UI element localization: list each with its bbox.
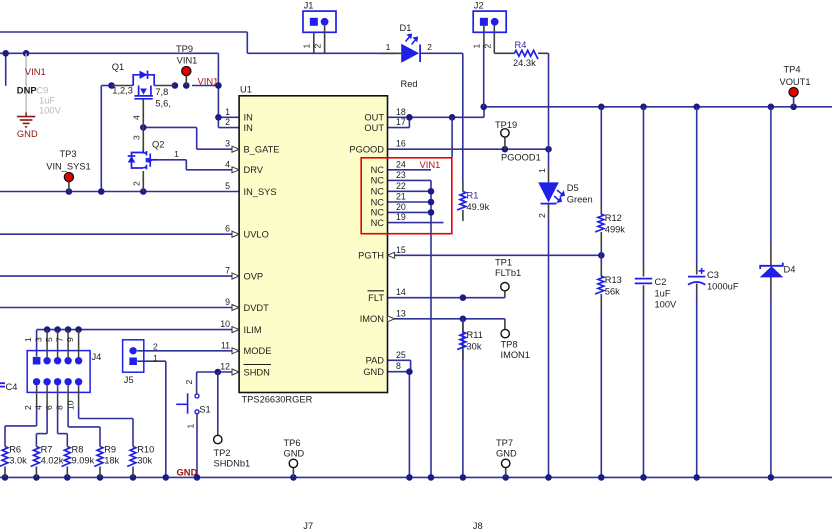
svg-text:2: 2: [312, 44, 322, 49]
node rail dot: [130, 474, 137, 481]
diode D1: [381, 52, 401, 54]
svg-text:NC: NC: [371, 208, 385, 218]
node rail dot: [640, 474, 647, 481]
node rail dot: [97, 474, 104, 481]
wire GND rail: [0, 476, 832, 478]
svg-text:2: 2: [184, 380, 194, 385]
node bus C3 dot: [693, 104, 700, 111]
svg-text:GND: GND: [284, 449, 305, 459]
wire DRV feeder: [158, 159, 186, 161]
pin arrow: [232, 327, 239, 333]
svg-text:Red: Red: [401, 79, 418, 89]
svg-text:D5: D5: [567, 183, 579, 193]
svg-text:MODE: MODE: [244, 346, 272, 356]
pin arrow: [232, 348, 239, 354]
wire TP4 lead: [793, 97, 795, 107]
testpoint TP7: [505, 468, 507, 478]
svg-text:SHDN: SHDN: [244, 367, 270, 377]
svg-text:Q2: Q2: [152, 140, 164, 150]
svg-text:30k: 30k: [467, 342, 482, 352]
node bus D4 dot: [768, 104, 775, 111]
node OUT dotA: [449, 114, 456, 121]
ground GND1: [25, 113, 27, 117]
svg-text:30k: 30k: [137, 456, 152, 466]
wire IN pin1: [218, 116, 239, 118]
wire D5 column: [548, 149, 550, 168]
node IN_SYS Q1 dot: [98, 188, 105, 195]
svg-text:3: 3: [132, 135, 142, 140]
wire top row to J1/D1: [0, 31, 247, 33]
svg-text:Q1: Q1: [112, 62, 124, 72]
svg-text:R9: R9: [104, 445, 116, 455]
svg-text:DVDT: DVDT: [244, 303, 270, 313]
svg-text:3.0k: 3.0k: [9, 456, 27, 466]
node VIN1 dot2: [23, 50, 30, 57]
wire B_GATE feeder: [143, 126, 196, 128]
capacitor C9 DNP: [25, 53, 27, 112]
svg-text:GND: GND: [17, 128, 38, 139]
wire NC20: [388, 211, 432, 213]
svg-text:IN_SYS: IN_SYS: [244, 187, 277, 197]
svg-text:16: 16: [396, 139, 406, 149]
svg-text:21: 21: [396, 192, 406, 202]
wire J1 to D1: [247, 52, 397, 54]
wire J4p10-R10: [78, 407, 80, 419]
svg-text:DNP: DNP: [17, 85, 37, 96]
svg-text:4: 4: [132, 115, 142, 120]
svg-text:J5: J5: [124, 375, 134, 385]
svg-text:NC: NC: [371, 165, 385, 175]
svg-text:22: 22: [396, 181, 406, 191]
svg-text:NC: NC: [371, 218, 385, 228]
svg-text:R4: R4: [515, 40, 527, 50]
svg-text:TP9: TP9: [176, 44, 193, 54]
svg-text:4: 4: [34, 405, 44, 410]
svg-text:19: 19: [396, 212, 406, 222]
wire J2 pin1 drop: [483, 45, 485, 107]
svg-text:VIN1: VIN1: [177, 56, 198, 66]
overline SHDN: [244, 364, 272, 366]
svg-text:1: 1: [386, 42, 391, 52]
svg-text:OUT: OUT: [364, 113, 384, 123]
svg-text:VIN1: VIN1: [25, 66, 46, 77]
wire PGTH row: [388, 254, 602, 256]
svg-text:100V: 100V: [39, 105, 62, 116]
svg-text:9: 9: [225, 297, 230, 307]
node rail dot: [33, 474, 40, 481]
node rail dot: [290, 474, 297, 481]
svg-text:PGOOD1: PGOOD1: [501, 153, 541, 163]
pin arrow: [232, 167, 239, 173]
transistor Q1: [112, 85, 134, 87]
svg-text:2: 2: [23, 405, 33, 410]
svg-text:12: 12: [220, 362, 230, 372]
svg-text:20: 20: [396, 202, 406, 212]
svg-text:14: 14: [396, 287, 406, 297]
wire D1 to corner: [424, 52, 463, 54]
svg-text:TP8: TP8: [501, 340, 518, 350]
svg-text:2: 2: [427, 42, 432, 52]
resistor R6: [0, 447, 8, 467]
node IN dot: [215, 114, 222, 121]
svg-text:24.3k: 24.3k: [513, 58, 536, 68]
svg-text:11: 11: [221, 340, 230, 350]
pin arrow IMON: [388, 316, 395, 322]
svg-text:7: 7: [225, 266, 230, 276]
resistor R1: [457, 192, 466, 211]
node PGOOD TP19 dot: [502, 146, 509, 153]
svg-text:J1: J1: [304, 1, 314, 11]
diode D5: [538, 182, 559, 202]
resistor R12: [595, 214, 604, 232]
node VIN1 dot1: [2, 50, 9, 57]
node NC22 dot: [428, 188, 435, 195]
resistor R7: [31, 447, 40, 467]
wire IN_SYS row: [0, 191, 239, 193]
node bus TP4 dot: [790, 104, 797, 111]
pin arrow: [232, 273, 239, 279]
svg-text:1: 1: [174, 149, 179, 159]
wire GND8: [388, 371, 410, 373]
svg-text:R13: R13: [605, 275, 622, 285]
svg-text:2: 2: [482, 44, 492, 49]
diode D4: [760, 266, 784, 277]
node ILIM dots: [44, 326, 51, 333]
wire dotA drop: [451, 117, 453, 157]
svg-text:IMON: IMON: [360, 314, 384, 324]
svg-text:100V: 100V: [655, 300, 678, 310]
wire IN pin2: [218, 127, 239, 129]
svg-text:GND: GND: [363, 367, 384, 377]
svg-text:5,6,: 5,6,: [155, 99, 171, 109]
node rail dot: [693, 474, 700, 481]
node bus J2 dot: [480, 104, 487, 111]
wire R13 column: [600, 255, 602, 262]
capacitor C4: [0, 382, 5, 384]
node VIN1 join dot: [215, 82, 222, 89]
svg-text:25: 25: [396, 350, 406, 360]
node GND8 dot: [406, 368, 413, 375]
connector J1: [303, 11, 336, 32]
svg-text:J8: J8: [473, 521, 483, 529]
node OUT dot: [406, 114, 413, 121]
svg-text:1: 1: [186, 424, 196, 429]
capacitor C2: [635, 278, 652, 280]
svg-text:2: 2: [225, 117, 230, 127]
svg-text:R12: R12: [605, 213, 622, 223]
wire UVLO row: [0, 233, 239, 235]
svg-text:FLTb1: FLTb1: [495, 268, 521, 278]
node bus R12 dot: [598, 104, 605, 111]
testpoint TP9: [185, 76, 187, 86]
svg-text:R10: R10: [137, 445, 154, 455]
svg-text:10: 10: [65, 400, 75, 410]
connector J5: [123, 340, 144, 372]
svg-text:5: 5: [44, 337, 54, 342]
svg-text:TP4: TP4: [783, 65, 800, 75]
svg-text:5: 5: [225, 181, 230, 191]
wire MODE row: [137, 350, 239, 352]
svg-text:18: 18: [396, 107, 406, 117]
node PGTH dot: [598, 252, 605, 259]
svg-text:Green: Green: [567, 195, 593, 205]
wire NC19: [388, 222, 444, 224]
svg-text:1uF: 1uF: [655, 289, 671, 299]
svg-text:J4: J4: [92, 352, 102, 362]
svg-text:ILIM: ILIM: [244, 325, 262, 335]
overline FLT: [368, 290, 385, 292]
resistor R10: [127, 447, 136, 467]
node rail dot: [768, 474, 775, 481]
svg-text:IN: IN: [244, 123, 253, 133]
svg-text:7: 7: [55, 337, 65, 342]
wire PAD: [388, 359, 411, 361]
testpoint TP3: [68, 182, 70, 192]
svg-text:24: 24: [396, 159, 406, 169]
wire J4p4-R7: [46, 407, 48, 434]
svg-text:D1: D1: [400, 23, 412, 33]
svg-text:C3: C3: [707, 270, 719, 280]
wire J2 pin2 drop: [493, 26, 495, 54]
svg-text:10: 10: [220, 319, 230, 329]
svg-text:PGTH: PGTH: [358, 251, 384, 261]
svg-text:TP6: TP6: [284, 438, 301, 448]
svg-text:9: 9: [65, 337, 75, 342]
svg-text:7,8: 7,8: [155, 87, 168, 97]
node bus C2 dot: [640, 104, 647, 111]
wire NC24: [388, 169, 432, 171]
svg-text:2: 2: [132, 181, 142, 186]
svg-text:FLT: FLT: [368, 293, 384, 303]
svg-text:PGOOD: PGOOD: [349, 145, 384, 155]
node FLT R1 dot: [460, 294, 467, 301]
svg-text:NC: NC: [371, 176, 385, 186]
testpoint TP1: [501, 283, 509, 291]
wire J4p2-R6: [36, 407, 38, 426]
svg-text:VOUT1: VOUT1: [780, 77, 811, 87]
svg-text:4: 4: [225, 159, 230, 169]
svg-text:UVLO: UVLO: [244, 230, 269, 240]
svg-text:J7: J7: [303, 521, 313, 529]
svg-text:23: 23: [396, 170, 406, 180]
resistor R8: [62, 447, 71, 467]
svg-text:GND: GND: [496, 449, 517, 459]
svg-text:6: 6: [44, 405, 54, 410]
node rail dot: [406, 474, 413, 481]
node rail dot: [460, 474, 467, 481]
resistor R13: [595, 276, 604, 294]
wire R4 right: [544, 52, 549, 54]
wire Q1 out row: [101, 85, 111, 87]
svg-text:R1: R1: [467, 191, 479, 201]
wire S1 bottom: [196, 414, 198, 420]
svg-text:J2: J2: [474, 1, 484, 11]
svg-text:D4: D4: [784, 265, 796, 275]
svg-text:2: 2: [537, 213, 547, 218]
node SHDN dot: [215, 369, 222, 376]
svg-text:6: 6: [225, 224, 230, 234]
svg-text:3: 3: [225, 139, 230, 149]
svg-text:PAD: PAD: [366, 356, 385, 366]
node rail dot: [64, 474, 71, 481]
svg-text:R7: R7: [41, 445, 53, 455]
wire FLT row: [388, 297, 505, 299]
svg-text:TP3: TP3: [59, 149, 76, 159]
switch S1: [195, 394, 199, 398]
svg-text:VIN1: VIN1: [420, 159, 441, 170]
resistor R4: [497, 52, 515, 54]
testpoint TP8: [501, 329, 509, 337]
svg-text:8: 8: [396, 361, 401, 371]
wire OUT18: [388, 116, 485, 118]
svg-text:VIN1: VIN1: [198, 75, 219, 86]
wire TP2 riser: [217, 372, 219, 428]
node Q1 src dot: [108, 82, 115, 89]
pin arrow: [232, 231, 239, 237]
pin arrow PGTH: [388, 252, 395, 258]
pin arrow: [232, 369, 239, 375]
wire PGOOD row: [388, 148, 549, 150]
pin arrow: [232, 305, 239, 311]
svg-text:8: 8: [55, 405, 65, 410]
wire NC22: [388, 190, 432, 192]
svg-text:TPS26630RGER: TPS26630RGER: [242, 395, 313, 405]
node IMON R11 dot: [460, 316, 467, 323]
svg-text:499k: 499k: [605, 225, 626, 235]
svg-text:1: 1: [472, 44, 482, 49]
svg-text:3: 3: [34, 337, 44, 342]
wire R11 drop: [462, 319, 464, 478]
wire OVP row: [0, 275, 239, 277]
svg-text:IMON1: IMON1: [501, 350, 530, 360]
testpoint TP2: [214, 435, 222, 443]
wire J4p8-R9: [67, 407, 69, 427]
wire J5 pin1 row: [137, 360, 166, 362]
node NC20 dot: [428, 209, 435, 216]
svg-text:C2: C2: [655, 277, 667, 287]
connector J4: [27, 351, 90, 393]
node rail dot: [194, 474, 201, 481]
wire VIN1 riser: [217, 53, 219, 127]
node TP9 dot: [183, 82, 190, 89]
node rail dot: [428, 474, 435, 481]
svg-text:DRV: DRV: [244, 165, 264, 175]
wire C3 column: [696, 107, 698, 265]
wire C2 column: [643, 107, 645, 266]
svg-text:2: 2: [153, 342, 158, 352]
wire NC21: [388, 201, 432, 203]
pin arrow: [232, 146, 239, 152]
wire ILIM row: [37, 329, 240, 331]
svg-text:15: 15: [396, 245, 406, 255]
testpoint TP19: [504, 137, 506, 149]
svg-text:R8: R8: [72, 445, 84, 455]
svg-text:1: 1: [537, 168, 547, 173]
wire SHDN row: [197, 371, 240, 373]
annotation red box: [361, 158, 452, 234]
svg-text:TP1: TP1: [495, 258, 512, 268]
svg-text:56k: 56k: [605, 287, 620, 297]
wire VIN row y53: [0, 52, 218, 54]
svg-text:49.9k: 49.9k: [467, 202, 490, 212]
wire J4p6-R8: [57, 407, 59, 434]
capacitor C3: [688, 276, 705, 278]
svg-text:VIN_SYS1: VIN_SYS1: [46, 162, 90, 172]
resistor R9: [94, 447, 103, 467]
node rail dot: [163, 474, 170, 481]
svg-text:1000uF: 1000uF: [707, 282, 739, 292]
node B_GATE dot: [140, 124, 147, 131]
testpoint TP6: [292, 468, 294, 478]
wire stub left: [5, 53, 7, 86]
wire D4 column: [770, 107, 772, 243]
svg-text:IN: IN: [244, 113, 253, 123]
wire IMON row: [388, 318, 505, 320]
svg-text:R11: R11: [467, 330, 483, 340]
node IN_SYS Q2 dot: [140, 188, 147, 195]
svg-text:1,2,3: 1,2,3: [112, 86, 133, 96]
node Q1 out dot: [172, 82, 179, 89]
svg-text:1: 1: [225, 107, 230, 117]
wire R12 column: [600, 107, 602, 203]
svg-text:OVP: OVP: [244, 271, 264, 281]
svg-text:R6: R6: [9, 445, 21, 455]
resistor R11: [457, 332, 466, 350]
node PGOOD D5 dot: [545, 146, 552, 153]
node rail dot: [2, 474, 9, 481]
svg-text:GND: GND: [177, 467, 198, 478]
svg-text:1: 1: [302, 44, 312, 49]
svg-text:S1: S1: [199, 405, 210, 415]
svg-text:1: 1: [153, 353, 158, 363]
svg-text:17: 17: [396, 117, 406, 127]
svg-text:TP19: TP19: [495, 120, 517, 130]
wire DVDT row: [0, 307, 239, 309]
svg-text:NC: NC: [371, 187, 385, 197]
svg-text:13: 13: [396, 308, 406, 318]
svg-text:SHDNb1: SHDNb1: [214, 459, 251, 469]
svg-text:B_GATE: B_GATE: [244, 145, 280, 155]
svg-text:4.02k: 4.02k: [41, 456, 64, 466]
node NC21 dot: [428, 199, 435, 206]
svg-text:OUT: OUT: [364, 123, 384, 133]
node rail dot: [502, 474, 509, 481]
transistor Q2: [142, 127, 144, 149]
svg-text:TP7: TP7: [496, 438, 513, 448]
wire NC23: [388, 179, 432, 181]
svg-text:NC: NC: [371, 197, 385, 207]
svg-text:TP2: TP2: [214, 448, 231, 458]
svg-text:1: 1: [23, 337, 33, 342]
wire main bus: [484, 106, 832, 108]
svg-text:9.09k: 9.09k: [72, 456, 95, 466]
op-amp U1 body: [239, 96, 387, 393]
wire Q1 right to riser: [192, 85, 218, 87]
svg-text:18k: 18k: [104, 456, 119, 466]
connector J2: [473, 11, 506, 32]
node rail dot: [545, 474, 552, 481]
svg-text:U1: U1: [240, 85, 252, 95]
svg-text:C4: C4: [6, 382, 18, 392]
wire OUT17: [388, 127, 410, 129]
node IN_SYS TP3 dot: [66, 188, 73, 195]
testpoint TP4: [789, 88, 798, 97]
node rail dot: [598, 474, 605, 481]
